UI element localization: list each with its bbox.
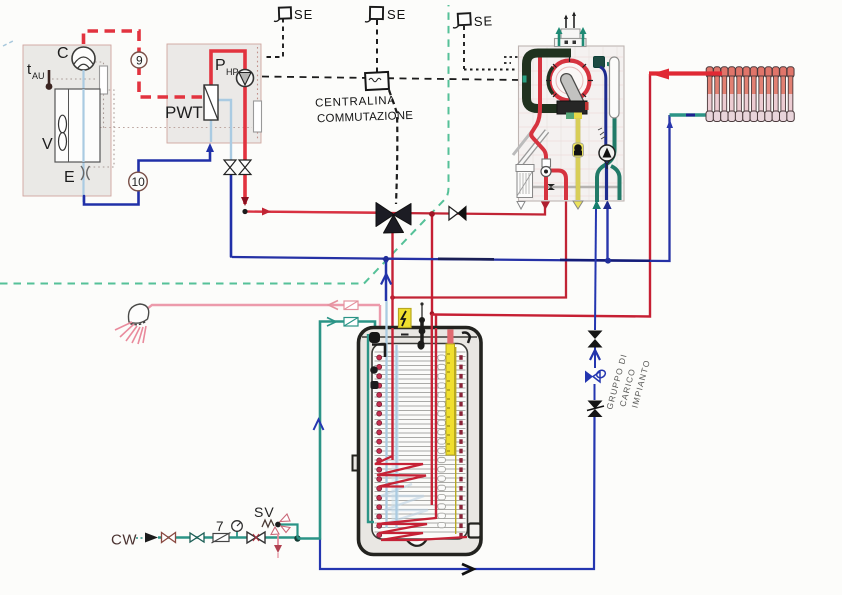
- svg-text:C: C: [57, 45, 69, 62]
- svg-text:P: P: [215, 57, 226, 74]
- svg-text:E: E: [64, 169, 75, 186]
- svg-text:7: 7: [216, 519, 224, 534]
- svg-text:SE: SE: [387, 7, 406, 22]
- svg-text:CW: CW: [111, 532, 137, 549]
- svg-text:V: V: [42, 136, 53, 153]
- svg-text:AU: AU: [32, 71, 45, 81]
- svg-text:PWT: PWT: [165, 103, 203, 122]
- svg-text:SE: SE: [294, 7, 313, 22]
- svg-text:SV: SV: [254, 504, 275, 520]
- svg-text:10: 10: [132, 175, 146, 189]
- svg-text:SE: SE: [474, 13, 494, 29]
- svg-text:9: 9: [136, 54, 143, 68]
